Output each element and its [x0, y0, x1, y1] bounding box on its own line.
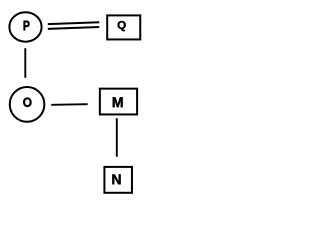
- label Q: [118, 21, 126, 31]
- node Q (box): [107, 15, 140, 39]
- label N: [112, 174, 120, 184]
- label P: [24, 21, 30, 31]
- node N (box): [104, 167, 132, 193]
- edge O-M (wire): [51, 103, 87, 106]
- node P (circle): [9, 12, 41, 42]
- node M (box): [100, 89, 137, 115]
- label M: [113, 97, 123, 107]
- node O (circle): [10, 87, 45, 122]
- edge P-O (wire): [24, 48, 26, 78]
- label O: [23, 98, 31, 107]
- edge P-Q (double line): [48, 22, 99, 29]
- edge M-N (wire): [116, 118, 118, 157]
